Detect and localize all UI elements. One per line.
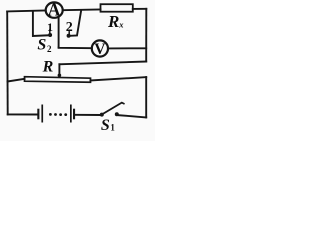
switch S1 contact dot right [115, 112, 119, 116]
switch S1 contact dot left [100, 113, 104, 117]
svg-text:2: 2 [66, 20, 73, 35]
wire right vertical upper [145, 9, 147, 62]
wire bottom right segment [119, 115, 146, 117]
resistor Rx box [101, 4, 133, 12]
svg-text:A: A [48, 0, 61, 20]
battery cell 2 long plate [70, 105, 72, 123]
wire rheostat row right [91, 77, 147, 80]
battery cell 2 short plate [73, 109, 75, 120]
wire left vertical [6, 11, 9, 114]
wire top-left segment [7, 10, 45, 13]
svg-text:2: 2 [47, 44, 52, 54]
wire top middle segment [63, 9, 101, 12]
wire throw-2 branch [70, 11, 81, 36]
wire right vertical lower [145, 77, 147, 117]
rheostat R box [25, 77, 91, 83]
switch S2 contact dot 1 [48, 33, 52, 37]
svg-text:R: R [107, 12, 119, 31]
battery dots [49, 113, 67, 116]
contact stub 1 [49, 30, 51, 33]
svg-text:1: 1 [110, 122, 115, 132]
battery cell 1 short plate [37, 109, 39, 120]
wire voltmeter horizontal left [59, 46, 92, 49]
wire switch S2 pole drop [58, 17, 60, 47]
svg-text:1: 1 [47, 20, 53, 34]
rheostat tap dot [58, 74, 62, 78]
wire throw-1 branch [33, 11, 49, 36]
wire top-right segment [133, 8, 147, 10]
svg-text:V: V [94, 41, 106, 58]
wire battery middle gap [75, 114, 100, 116]
ammeter A [46, 2, 63, 17]
voltmeter V [92, 40, 108, 56]
contact stub 2 [68, 32, 70, 34]
svg-text:S: S [101, 117, 110, 134]
wire voltmeter horizontal right [108, 47, 146, 49]
wire tap horizontal [59, 62, 146, 65]
switch S2 contact dot 2 [67, 34, 71, 38]
wire bottom left segment [8, 113, 37, 115]
svg-text:R: R [42, 59, 54, 76]
wire tap drop [58, 64, 60, 74]
wire rheostat row left [8, 79, 25, 82]
svg-text:S: S [37, 36, 46, 53]
switch S1 blade [103, 103, 124, 114]
svg-text:x: x [118, 19, 124, 29]
battery cell 1 long plate [41, 105, 43, 123]
